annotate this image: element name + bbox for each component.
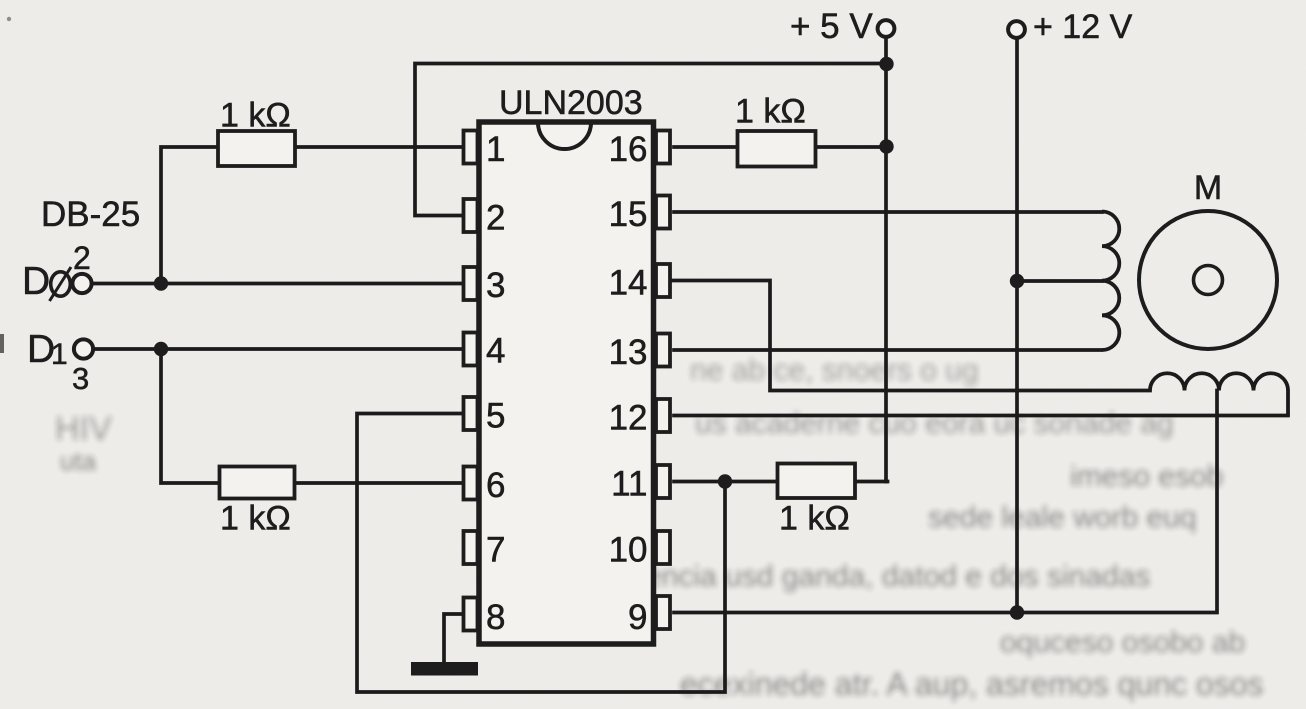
svg-text:1 kΩ: 1 kΩ [220,97,291,135]
svg-text:10: 10 [609,531,648,570]
svg-text:2: 2 [486,199,505,238]
svg-text:14: 14 [609,264,648,303]
svg-text:9: 9 [628,598,647,637]
svg-text:11: 11 [611,465,647,504]
svg-text:3: 3 [486,266,505,305]
svg-text:sede leale worb euq: sede leale worb euq [928,501,1197,534]
svg-text:5: 5 [486,397,505,436]
svg-text:+ 12 V: + 12 V [1033,8,1133,46]
svg-text:12: 12 [609,399,648,438]
svg-text:6: 6 [486,466,505,505]
svg-text:ecexinede atr. A aup, asremos: ecexinede atr. A aup, asremos qunc osos [680,666,1263,702]
svg-text:imeso esob: imeso esob [1070,460,1223,493]
svg-text:8: 8 [486,598,505,637]
svg-text:HIV: HIV [55,410,112,448]
svg-text:uta: uta [60,446,97,476]
svg-text:16: 16 [609,130,648,169]
svg-text:oquceso osobo ab: oquceso osobo ab [1000,626,1245,659]
svg-text:15: 15 [609,195,648,234]
svg-text:4: 4 [486,332,505,371]
svg-text:1: 1 [486,130,505,169]
svg-text:us acaderne cuo eora uc sonade: us acaderne cuo eora uc sonade ag [695,407,1174,440]
svg-text:13: 13 [609,333,648,372]
svg-text:+ 5 V: + 5 V [790,7,873,46]
svg-text:M: M [1194,169,1222,207]
svg-text:1 kΩ: 1 kΩ [220,500,291,538]
svg-text:ne ab ce, snoers o ug: ne ab ce, snoers o ug [690,354,979,387]
svg-text:1 kΩ: 1 kΩ [779,500,850,538]
svg-text:ULN2003: ULN2003 [499,84,643,122]
svg-text:2: 2 [73,240,91,276]
svg-text:1: 1 [51,338,68,371]
svg-text:1 kΩ: 1 kΩ [735,93,806,131]
svg-text:7: 7 [486,531,505,570]
svg-text:encia usd ganda, datod e dos s: encia usd ganda, datod e dos sinadas [645,560,1150,593]
svg-text:DB-25: DB-25 [41,195,140,234]
svg-text:3: 3 [72,361,89,396]
svg-text:D: D [22,260,50,303]
